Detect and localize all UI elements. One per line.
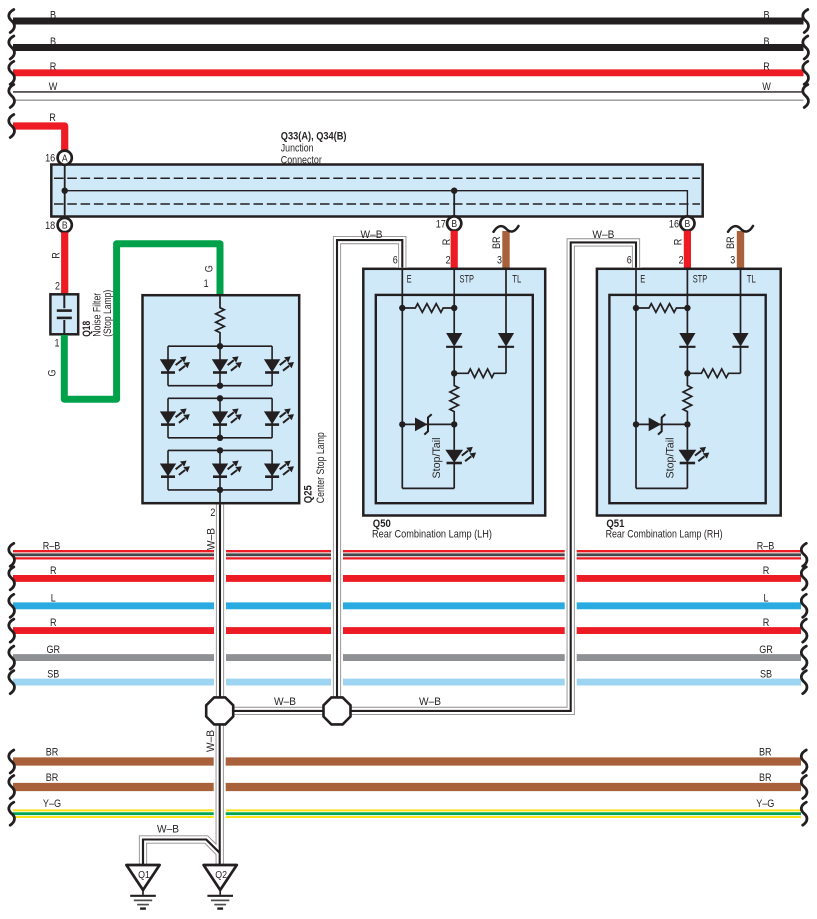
svg-text:Y–G: Y–G [756,798,774,810]
svg-text:GR: GR [47,644,61,656]
svg-text:R: R [50,252,62,259]
svg-text:Connector: Connector [281,154,322,166]
svg-text:B: B [763,36,769,48]
svg-text:W–B: W–B [361,229,383,241]
svg-text:2: 2 [210,507,215,519]
svg-text:R: R [441,238,453,245]
svg-text:SB: SB [47,668,59,680]
svg-text:3: 3 [730,255,735,267]
svg-text:R–B: R–B [43,541,61,553]
svg-text:Rear Combination Lamp (LH): Rear Combination Lamp (LH) [372,529,492,541]
svg-text:Q1: Q1 [138,869,150,881]
svg-text:L: L [764,593,769,605]
svg-text:B: B [685,219,691,230]
svg-text:STP: STP [693,274,708,286]
svg-text:G: G [204,265,216,272]
svg-text:1: 1 [204,278,209,290]
svg-text:W–B: W–B [205,730,217,752]
svg-text:W: W [762,81,771,93]
svg-text:W: W [49,81,58,93]
svg-text:STP: STP [460,274,475,286]
svg-text:TL: TL [747,274,756,286]
svg-text:(Stop Lamp): (Stop Lamp) [102,290,114,337]
svg-text:2: 2 [55,280,60,292]
svg-text:16: 16 [45,153,55,165]
svg-text:A: A [62,153,68,164]
svg-text:2: 2 [446,255,451,267]
svg-text:R: R [763,617,770,629]
svg-text:BR: BR [759,772,772,784]
svg-text:Q33(A), Q34(B): Q33(A), Q34(B) [281,131,347,143]
svg-text:B: B [763,9,769,21]
svg-text:Q2: Q2 [215,869,227,881]
svg-text:G: G [47,369,59,376]
svg-text:1: 1 [55,337,60,349]
svg-text:BR: BR [759,747,772,759]
svg-text:W–B: W–B [592,229,614,241]
svg-text:R: R [763,565,770,577]
svg-text:R: R [50,565,57,577]
svg-text:L: L [51,593,56,605]
svg-text:18: 18 [45,220,55,232]
svg-text:W–B: W–B [205,528,217,550]
svg-text:E: E [640,274,645,286]
svg-text:Junction: Junction [281,143,314,155]
svg-text:B: B [451,219,457,230]
svg-text:B: B [62,221,68,232]
svg-text:TL: TL [512,274,521,286]
svg-text:R: R [763,61,770,73]
svg-text:3: 3 [497,255,502,267]
svg-text:R: R [673,238,685,245]
svg-text:R: R [50,617,57,629]
svg-text:R: R [49,112,56,124]
svg-text:16: 16 [669,218,679,230]
svg-text:Stop/Tail: Stop/Tail [431,438,443,479]
svg-text:W–B: W–B [157,823,179,835]
svg-text:6: 6 [627,255,632,267]
svg-text:B: B [50,36,56,48]
svg-text:Center Stop Lamp: Center Stop Lamp [315,432,327,503]
svg-text:BR: BR [491,236,503,249]
svg-text:Stop/Tail: Stop/Tail [664,438,676,479]
svg-text:SB: SB [760,668,772,680]
svg-text:Q25: Q25 [303,485,315,503]
svg-text:BR: BR [725,236,737,249]
svg-text:W–B: W–B [274,696,296,708]
svg-text:Rear Combination Lamp (RH): Rear Combination Lamp (RH) [606,529,723,541]
svg-text:17: 17 [436,218,446,230]
svg-text:B: B [50,9,56,21]
svg-text:R–B: R–B [757,541,775,553]
svg-text:BR: BR [46,747,59,759]
svg-text:W–B: W–B [419,696,441,708]
svg-text:GR: GR [759,644,773,656]
svg-text:2: 2 [679,255,684,267]
svg-text:6: 6 [393,255,398,267]
svg-text:E: E [407,274,412,286]
svg-text:R: R [50,61,57,73]
svg-text:BR: BR [46,772,59,784]
svg-text:Y–G: Y–G [43,798,61,810]
